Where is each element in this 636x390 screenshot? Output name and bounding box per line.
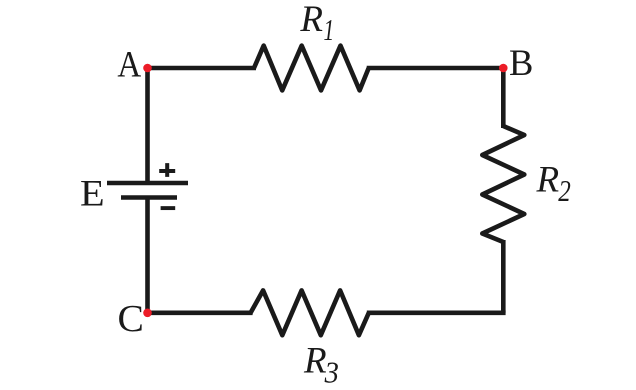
resistor R3 [251,290,369,335]
svg-text:R: R [299,0,323,40]
plus sign of battery [159,163,175,177]
node B dot [499,64,508,73]
wire node A down to battery E positive plate [145,68,150,183]
resistor R2 [482,126,524,242]
battery E long positive plate [107,181,188,186]
svg-text:R: R [536,160,560,201]
svg-text:2: 2 [558,175,571,209]
svg-text:A: A [117,44,141,85]
svg-text:C: C [118,298,144,340]
svg-text:E: E [80,174,105,214]
node C dot [143,309,152,318]
svg-text:1: 1 [324,12,335,47]
wire resistor R3 to bottom-right corner (bottom right) [367,310,506,315]
wire battery E negative plate down to node C [145,198,150,313]
wire resistor R2 to bottom-right corner (right lower) [501,240,506,313]
wire node C to resistor R3 (bottom left) [148,310,253,315]
wire resistor R1 to node B (top right) [367,66,506,71]
node A dot [143,64,152,73]
resistor R1 [254,46,369,91]
svg-text:R: R [303,341,327,382]
battery E short negative plate [121,195,177,200]
minus sign of battery [161,206,176,210]
svg-text:B: B [509,42,533,83]
svg-text:3: 3 [324,355,339,389]
wire node A to resistor R1 (top left) [148,66,257,71]
wire node B to resistor R2 (right upper) [501,68,506,128]
